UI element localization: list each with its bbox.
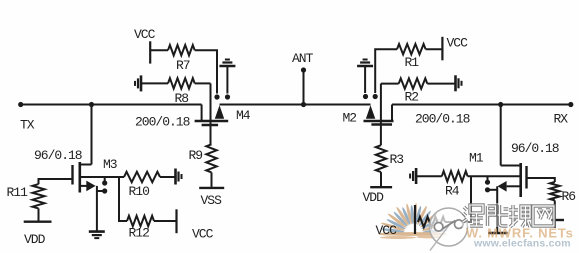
wire tee down from R4 line to R5 <box>445 176 471 222</box>
transistor M1 channel bar <box>519 163 522 197</box>
power VSS bar below M1 <box>488 232 508 234</box>
wire M3 body arrow line <box>80 185 88 187</box>
svg-text:VCC: VCC <box>376 223 398 238</box>
power VDD terminal bar mid-right <box>370 186 392 188</box>
resistor R8 body <box>168 78 195 88</box>
wire ground stem down to dot <box>364 66 366 93</box>
node ANT stub wire <box>303 70 305 105</box>
wire M1 body arrow line <box>507 185 521 187</box>
svg-text:R3: R3 <box>390 152 404 167</box>
watermark leaf fan <box>378 203 447 239</box>
wire main middle segment (M4 to M2 through ANT) <box>220 104 371 106</box>
svg-text:R1: R1 <box>405 55 420 70</box>
svg-text:R7: R7 <box>176 58 190 73</box>
transistor M3 gate lead from R11 <box>39 178 73 180</box>
transistor M3 drain stub <box>80 164 92 166</box>
junction dot below inverted ground <box>225 94 230 99</box>
transistor M1 drain stub <box>501 165 521 167</box>
power VCC terminal bar upper-left <box>149 41 151 63</box>
wire dot B to source column <box>97 190 105 192</box>
watermark chinese glyphs (stylized) <box>462 203 485 227</box>
junction dot A at M3 <box>102 180 107 185</box>
svg-text:VCC: VCC <box>447 36 469 51</box>
node ANT top dot <box>301 67 306 72</box>
junction dot M1 drain on main line <box>498 102 503 107</box>
svg-text:R10: R10 <box>129 184 150 199</box>
transistor M4 gate column wire (R8 down to R9) <box>210 83 212 144</box>
resistor R3 body <box>376 145 386 172</box>
wire tee down from R10 line to R12 <box>119 177 127 221</box>
svg-text:M4: M4 <box>236 108 251 123</box>
wire ground to R4 <box>416 175 442 177</box>
wire M3 drain vertical to main line <box>91 105 93 165</box>
wire stub below R6 bar <box>554 220 556 228</box>
svg-text:R9: R9 <box>189 148 203 163</box>
transistor M2 channel bar <box>364 120 394 123</box>
svg-text:RX: RX <box>554 112 569 127</box>
wire M3 upper tap line to R10 <box>80 176 124 178</box>
junction dot A at M1 <box>485 180 490 185</box>
ground rotated at R2 right end <box>454 75 457 91</box>
wire R10 to rotated ground <box>160 176 175 178</box>
wire main RX segment (M2 to RX) <box>392 104 571 106</box>
svg-text:www.elecfans.com: www.elecfans.com <box>473 238 571 250</box>
wire ground to R8 <box>141 82 168 84</box>
wire R2 to rotated ground <box>427 83 455 85</box>
power VDD terminal bar lower-left <box>24 220 52 222</box>
resistor R11 top wire <box>39 179 73 184</box>
resistor R11 body <box>33 184 45 208</box>
transistor M1 body arrow <box>498 181 507 192</box>
svg-text:200/0.18: 200/0.18 <box>135 115 190 130</box>
wire R6 down to bar <box>554 200 556 219</box>
svg-text:R8: R8 <box>175 91 189 106</box>
wire dot A stub <box>104 177 106 183</box>
transistor M2 body arrow <box>366 105 375 119</box>
resistor R7 body <box>168 45 195 55</box>
resistor R5 body (under watermark) <box>418 217 445 227</box>
wire M1 drain vertical to main line <box>500 105 502 166</box>
wire R9 to VSS bar <box>211 172 213 187</box>
svg-text:VSS: VSS <box>201 193 223 208</box>
transistor M4 source drop from main line <box>201 105 203 121</box>
ground earth symbol below M3 <box>89 230 105 233</box>
resistor R12 body <box>127 216 154 226</box>
svg-text:M1: M1 <box>469 151 484 166</box>
transistor M4 channel bar <box>195 120 229 123</box>
wire R1 left end down to dot <box>375 49 397 93</box>
svg-text:VDD: VDD <box>24 232 46 247</box>
wire main TX segment (TX to M4 source) <box>21 104 202 106</box>
wire ground stem down to dot <box>226 66 228 94</box>
wire R3 to VDD bar <box>380 172 382 186</box>
transistor M2 source drop from main line <box>391 105 393 121</box>
power VSS terminal bar <box>199 187 224 189</box>
ground rotated at R10 right end <box>174 169 177 185</box>
resistor R2 body <box>399 78 428 88</box>
svg-text:M2: M2 <box>343 111 357 126</box>
transistor M3 body arrow <box>86 181 95 192</box>
power VCC terminal bar lower-left <box>175 209 177 233</box>
resistor R4 body <box>442 171 468 181</box>
svg-text:M3: M3 <box>103 157 117 172</box>
wire dot A stub at M1 <box>487 176 489 182</box>
svg-text:R4: R4 <box>445 184 460 199</box>
svg-text:96/0.18: 96/0.18 <box>34 148 82 163</box>
power terminal bar left of R5 <box>414 205 416 234</box>
junction dot below R1 <box>373 94 378 99</box>
power VCC terminal bar upper-right <box>441 37 443 61</box>
transistor M2 gate bar <box>371 123 392 125</box>
ground inverted above M2 <box>357 65 373 68</box>
wire R1 to VCC bar <box>426 48 443 50</box>
junction dot below R7 <box>214 94 219 99</box>
transistor M1 gate lead to R6 <box>527 178 555 182</box>
svg-text:VDD: VDD <box>363 190 385 205</box>
junction dot ANT on main line <box>301 102 306 107</box>
transistor M4 gate bar <box>202 124 219 126</box>
ground rotated at R4 left end <box>415 168 418 184</box>
wire R12 to VCC terminal bar <box>154 220 176 222</box>
wire R2 left end to M2 gate column <box>381 83 399 85</box>
transistor M1 gate bar <box>525 166 527 189</box>
svg-text:R2: R2 <box>405 90 419 105</box>
wire M1 upper tap line to R4 <box>468 175 521 177</box>
wire R7 right end down to dot <box>195 50 217 93</box>
svg-text:200/0.18: 200/0.18 <box>415 112 470 127</box>
svg-text:ANT: ANT <box>292 51 314 66</box>
junction dot below inverted ground right <box>363 94 368 99</box>
resistor R6 body <box>550 182 560 200</box>
node TX endpoint dot <box>18 102 23 107</box>
watermark circle emblem <box>430 208 468 251</box>
wire VCC to R7 <box>150 49 168 51</box>
transistor M2 gate column wire (R2 down to R3) <box>380 84 382 146</box>
resistor R9 body <box>206 144 216 172</box>
svg-text:VCC: VCC <box>134 27 156 42</box>
power VSS bar below R6 <box>551 219 564 221</box>
svg-text:96/0.18: 96/0.18 <box>511 141 559 156</box>
wire M3 source column down to ground <box>96 186 98 231</box>
svg-text:VCC: VCC <box>192 227 214 242</box>
junction dot B at M1 <box>485 187 490 192</box>
junction dot M3 drain on main line <box>89 102 94 107</box>
wire dot B to source column at M1 <box>488 189 498 191</box>
junction dot B at M3 <box>102 188 107 193</box>
wire R8 right end to M4 gate column <box>195 82 211 84</box>
svg-text:TX: TX <box>20 118 35 133</box>
transistor M3 channel bar <box>79 162 82 193</box>
transistor M3 gate bar <box>71 165 73 185</box>
svg-text:R12: R12 <box>129 226 150 241</box>
resistor R1 body <box>397 44 426 54</box>
svg-text:R11: R11 <box>7 185 29 200</box>
transistor M4 body arrow <box>215 105 224 119</box>
ground inverted above M4 <box>219 65 235 68</box>
node RX endpoint dot <box>568 102 573 107</box>
svg-text:R6: R6 <box>562 189 576 204</box>
wire M1 source column down to VSS bar <box>496 186 498 232</box>
resistor R10 body <box>124 172 160 182</box>
wire R11 to VDD bar <box>38 208 40 220</box>
ground rotated at R8 left end <box>140 75 143 91</box>
